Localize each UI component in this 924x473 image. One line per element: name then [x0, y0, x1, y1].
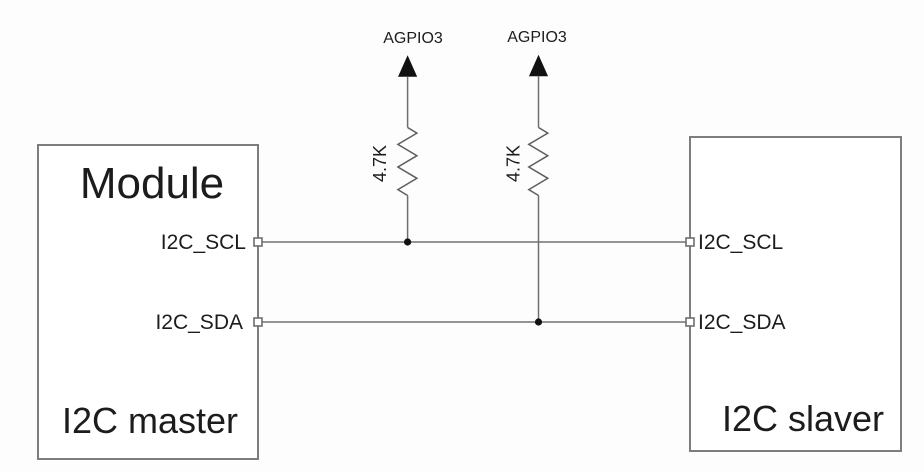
wire R1 top lead — [407, 76, 409, 127]
svg-text:I2C_SDA: I2C_SDA — [155, 311, 243, 334]
pin square I2C_SCL master — [254, 238, 262, 246]
module box U2 (I2C slaver) — [690, 137, 901, 451]
wire R1 bottom lead — [407, 196, 409, 243]
svg-text:AGPIO3: AGPIO3 — [383, 30, 443, 47]
svg-text:4.7K: 4.7K — [370, 145, 390, 182]
wire SDA net — [258, 321, 690, 323]
svg-text:I2C_SCL: I2C_SCL — [161, 231, 246, 254]
module box U1 (I2C master) — [38, 145, 258, 459]
junction dot SCL/R1 — [404, 238, 411, 245]
svg-text:I2C slaver: I2C slaver — [722, 398, 884, 439]
svg-text:I2C_SCL: I2C_SCL — [698, 231, 783, 254]
wire SCL net — [258, 241, 690, 243]
power symbol AGPIO3 (R1) — [383, 30, 443, 76]
pin square I2C_SDA master — [254, 318, 262, 326]
resistor R1 4.7K — [370, 128, 417, 196]
resistor R2 4.7K — [504, 128, 548, 196]
wire R2 bottom lead (crosses SCL, joins SDA) — [538, 196, 540, 323]
pin square I2C_SCL slaver — [686, 238, 694, 246]
wire R2 top lead — [538, 76, 540, 128]
svg-text:I2C master: I2C master — [62, 400, 238, 441]
svg-text:Module: Module — [80, 159, 224, 208]
svg-text:I2C_SDA: I2C_SDA — [698, 311, 786, 334]
power symbol AGPIO3 (R2) — [507, 29, 567, 76]
junction dot SDA/R2 — [535, 318, 542, 325]
svg-text:AGPIO3: AGPIO3 — [507, 29, 567, 46]
svg-text:4.7K: 4.7K — [504, 145, 524, 182]
pin square I2C_SDA slaver — [686, 318, 694, 326]
